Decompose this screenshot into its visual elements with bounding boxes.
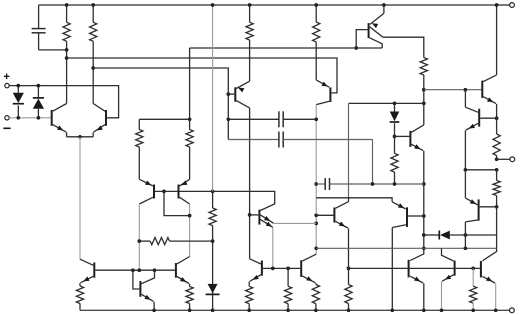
diode D4: [439, 231, 450, 240]
wire Q19 emitter to rail: [423, 283, 425, 310]
resistor R15: [186, 284, 193, 311]
resistor R5: [420, 58, 427, 125]
transistor Q4 PNP: [228, 81, 249, 259]
wire +input to Q3 base: [9, 86, 118, 118]
node x424 junctions: [422, 88, 426, 250]
transistor Q21 NPN: [481, 248, 497, 283]
wire Q5 collector vertical x316: [315, 105, 317, 255]
node Qc collector rail: [495, 3, 499, 7]
transistor Q1 dual-collector PNP: [356, 5, 384, 48]
resistor R18: [312, 283, 319, 310]
node y191 V+ chain: [211, 190, 215, 194]
wire Q8 emitter2 down: [272, 227, 274, 268]
wire x348 vertical: [348, 103, 350, 197]
node R2 junctions: [91, 3, 95, 70]
wire Q8 emitter1 to x316: [274, 222, 317, 224]
resistor R16: [246, 282, 253, 311]
terminal output pin: [510, 157, 515, 162]
capacitor C3: [228, 132, 372, 185]
node output node: [495, 157, 499, 161]
node bias right resistor tap: [471, 267, 475, 271]
transistor Q5 PNP: [316, 80, 330, 105]
terminal inverting input -: [3, 116, 10, 129]
terminal non-inverting input +: [4, 74, 10, 88]
diode D3: [390, 103, 400, 153]
wire Q1 collector2 line y37: [383, 37, 424, 57]
node rail junctions: [152, 308, 497, 312]
node bias line left dots: [131, 268, 156, 272]
wire diff pair common emitter: [67, 136, 94, 138]
wire Q21 emitter to rail: [495, 283, 497, 310]
node Q7 diode connection: [188, 214, 192, 218]
node base tie tap: [162, 190, 166, 194]
node Qd base: [495, 116, 499, 120]
node R4 rail: [314, 3, 318, 7]
wire y170 line: [465, 169, 496, 171]
transistor Q6 PNP mirror left: [139, 179, 154, 270]
resistor R17 bias: [285, 268, 292, 310]
resistor R14 tail emitter: [76, 283, 83, 310]
node V+ chain rail: [211, 3, 215, 7]
resistor R7 mirror right: [186, 119, 193, 179]
node y170 junctions: [464, 168, 499, 172]
wire y248 line: [316, 235, 496, 248]
transistor Q3 input NPN right: [93, 104, 106, 137]
node D2 junctions: [37, 84, 41, 120]
wire D4 line: [424, 234, 497, 236]
resistor R4: [313, 5, 320, 80]
node Q17 base line dots: [271, 267, 290, 271]
wire Q15 emitter to rail: [153, 302, 155, 311]
transistor Q2 input NPN left: [52, 104, 67, 137]
resistor R12 horizontal: [137, 238, 212, 245]
node D1 junctions: [16, 84, 20, 120]
capacitor C2: [228, 111, 316, 127]
resistor R1: [63, 5, 70, 104]
node tail: [78, 135, 82, 139]
node R9 bottom junction: [211, 239, 215, 243]
node y248 junctions: [464, 246, 468, 250]
transistor Q15 NPN bias diode: [133, 270, 155, 301]
transistor Q16 NPN mirror: [176, 257, 190, 284]
wire Q1 base-collector line y48: [190, 47, 383, 49]
capacitor C4: [316, 178, 424, 190]
node Q1 base tie: [354, 46, 358, 50]
node y184 junctions: [371, 182, 397, 186]
transistor Q10 NPN output top: [482, 5, 496, 104]
transistor Q20 NPN: [442, 248, 455, 281]
node Q22 base tap: [393, 135, 397, 139]
terminal ground pin: [510, 308, 515, 313]
wire base tie to Q7 collector: [164, 191, 190, 215]
wire y48 corner down x189.6: [189, 48, 191, 119]
transistor Q7 PNP mirror right: [179, 179, 190, 256]
resistor R19: [470, 268, 477, 310]
wire tail current: [79, 137, 81, 259]
capacitor C1: [32, 5, 67, 50]
node x316 junctions: [314, 117, 318, 250]
wire bias line right: [349, 267, 480, 269]
terminal Vs supply pin: [510, 3, 515, 8]
resistor R9: [209, 191, 216, 310]
diode D2: [33, 86, 44, 118]
wire y198 line: [316, 198, 392, 202]
node R1 junctions: [65, 3, 69, 60]
node Q4 collector junctions: [248, 213, 252, 217]
wire Qd emitter down: [464, 130, 466, 170]
node Qp base/cap taps: [226, 92, 230, 121]
wire ground rail: [80, 309, 509, 311]
wire Q22 emitter vertical: [423, 151, 425, 248]
node R3 rail: [248, 3, 252, 7]
resistor R3: [246, 5, 253, 81]
transistor Q18 NPN: [301, 254, 316, 283]
wire Qc emitter down: [496, 104, 498, 118]
transistor Q9 NPN: [316, 198, 348, 228]
transistor Q14 NPN tail source: [80, 259, 175, 283]
resistor R10: [493, 118, 500, 159]
resistor R6 mirror left: [136, 130, 143, 180]
node mirror feed: [188, 117, 192, 121]
resistor R13: [345, 268, 352, 310]
wire Qc base line y89.7: [424, 89, 482, 91]
node D4 junctions: [464, 233, 468, 237]
node D3 top: [393, 102, 397, 106]
node Qe base node: [495, 205, 499, 209]
diode D5: [206, 284, 220, 295]
wire -input to Q2 base: [9, 117, 51, 119]
node Q9 emitter bias node: [347, 267, 351, 271]
transistor Q12 PNP: [465, 170, 496, 249]
wire mirror top line y119.3: [139, 119, 189, 129]
wire output stub: [497, 158, 510, 160]
wire V+ chain upper: [212, 5, 214, 191]
wire x496 to diode line: [496, 207, 498, 235]
wire y191.4 line to Q8 collector: [180, 191, 275, 210]
wire Q9 emitter down: [348, 228, 350, 268]
wire Q20 emitter to rail: [441, 282, 443, 311]
transistor Q11 NPN limiter: [465, 90, 496, 130]
resistor R2: [90, 5, 97, 104]
resistor R11: [493, 170, 500, 207]
transistor Q22 NPN vbe bias: [395, 125, 424, 151]
wire feedback line y68: [93, 68, 228, 140]
wire Q6-Q7 base tie: [155, 190, 178, 192]
node Q1 emitter rail: [382, 3, 386, 7]
wire mirror line y58: [67, 58, 337, 93]
transistor Q13 PNP: [392, 202, 424, 310]
wire y103 line: [349, 102, 424, 104]
transistor Q19 NPN: [409, 248, 424, 283]
node Qc base junctions: [464, 88, 468, 92]
wire V+ top rail: [39, 4, 510, 6]
resistor R8: [391, 153, 398, 184]
transistor Q17 NPN: [250, 259, 301, 282]
transistor Q8 dual-emitter NPN: [250, 210, 274, 228]
diode D1: [13, 86, 24, 118]
